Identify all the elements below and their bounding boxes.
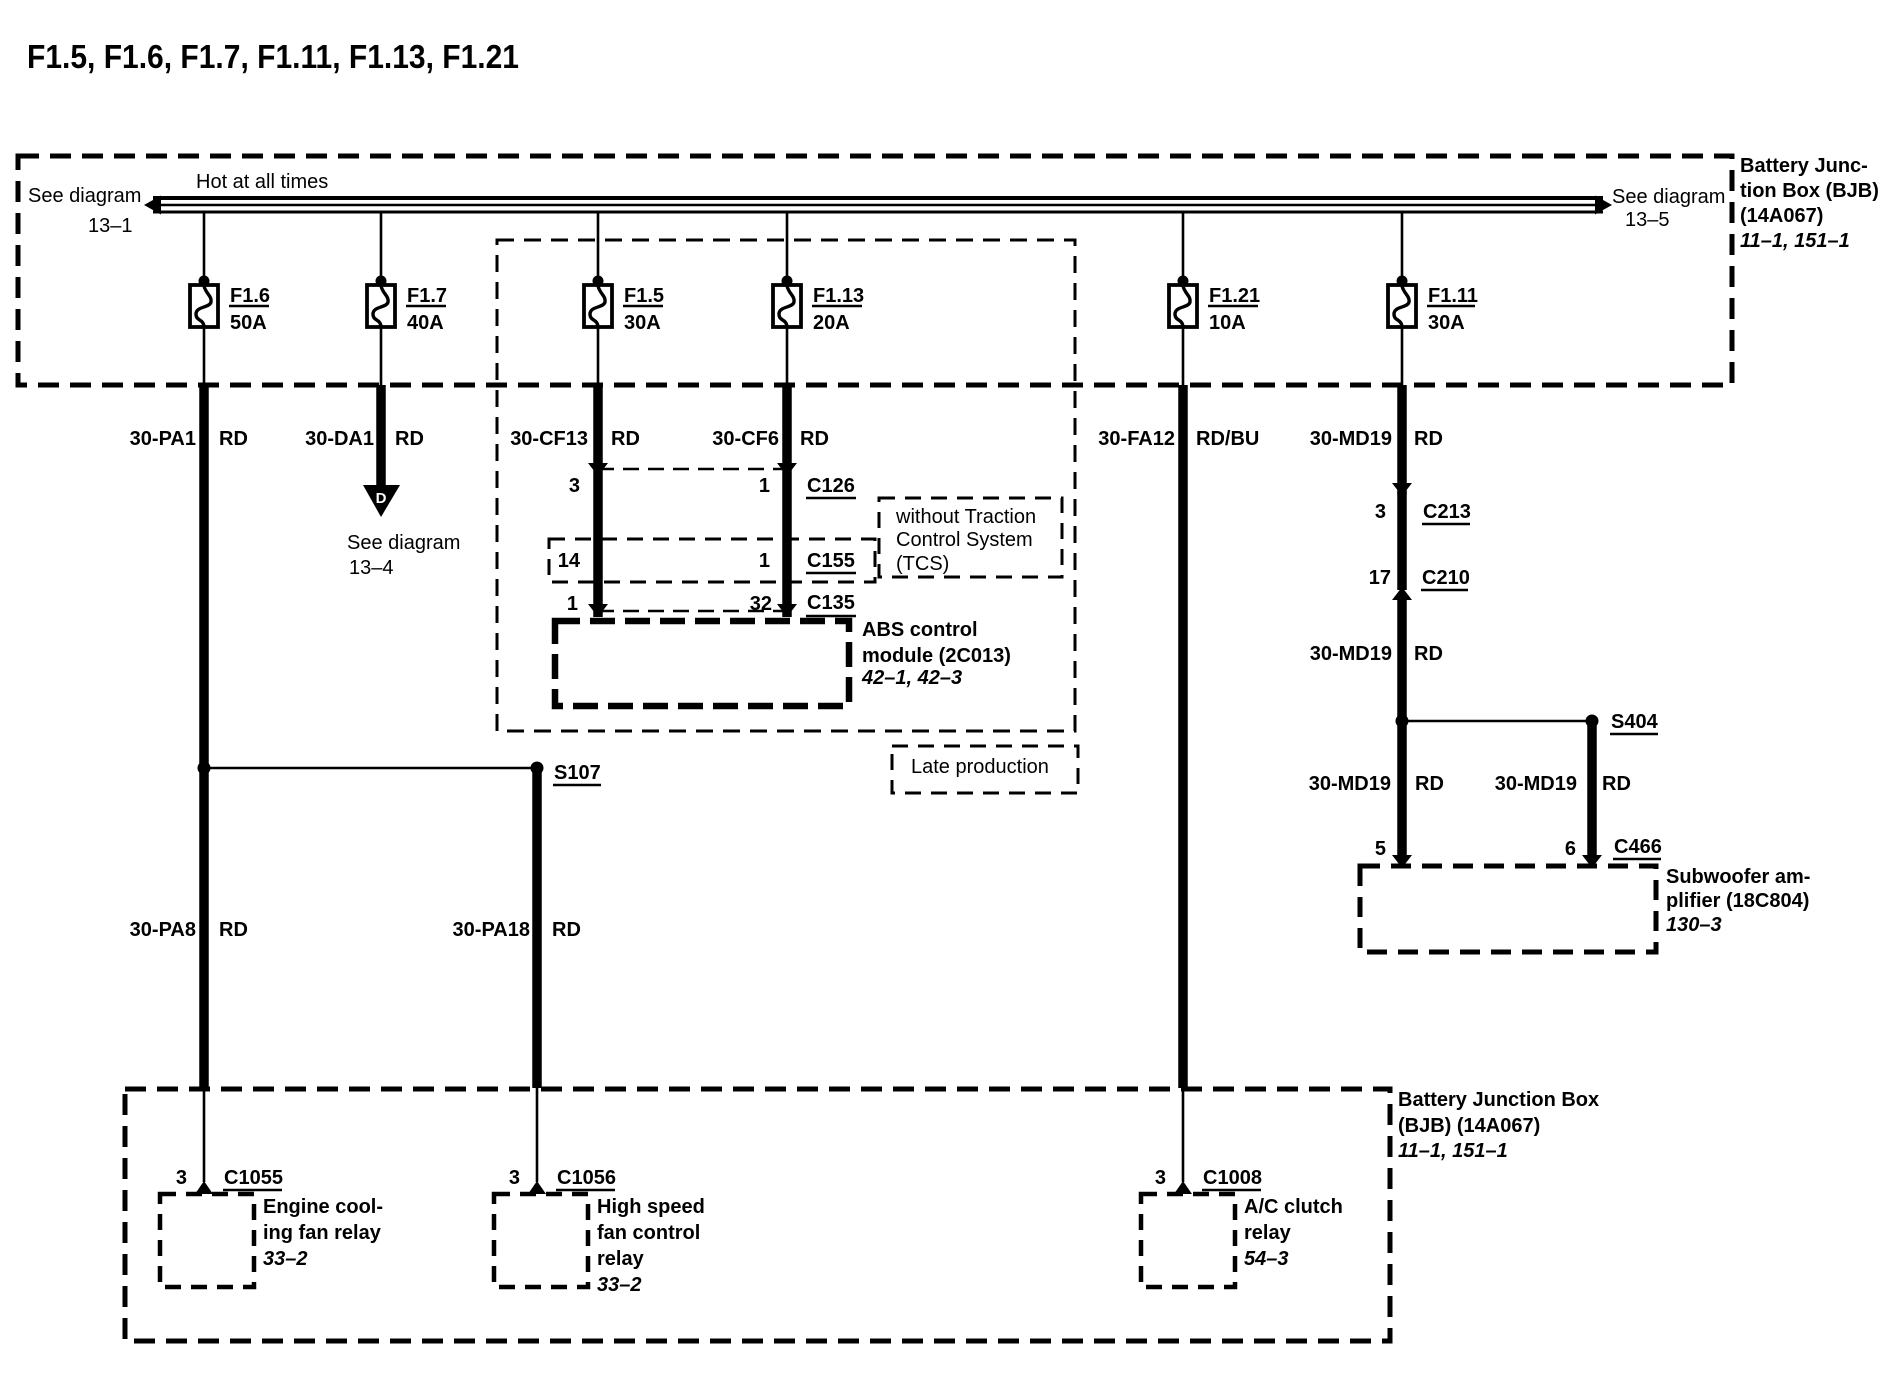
wire 30-CF6 (bold) to ABS module	[782, 385, 792, 617]
svg-text:50A: 50A	[230, 312, 267, 334]
wire (thin) into C1056	[536, 1088, 539, 1182]
svg-text:11–1, 151–1: 11–1, 151–1	[1740, 230, 1850, 252]
svg-text:30-MD19: 30-MD19	[1310, 643, 1392, 665]
label 30-MD19 RD (middle)	[1310, 643, 1443, 665]
wire (thin) into C1055	[203, 1088, 206, 1182]
note: See diagram 13-5 (right)	[1612, 186, 1725, 231]
svg-text:32: 32	[750, 593, 772, 615]
svg-text:Late production: Late production	[911, 756, 1049, 778]
svg-text:30A: 30A	[624, 312, 661, 334]
svg-text:C155: C155	[807, 550, 855, 572]
svg-text:3: 3	[176, 1167, 187, 1189]
svg-text:Subwoofer am-: Subwoofer am-	[1666, 866, 1810, 888]
svg-text:RD: RD	[1414, 428, 1443, 450]
note box: without Traction Control System (TCS)	[879, 498, 1062, 577]
svg-text:1: 1	[567, 593, 578, 615]
fuse F1.21 10A	[1169, 276, 1260, 386]
wire 30-PA8 (bold) from S107 to bottom BJB	[199, 768, 209, 1088]
svg-text:30-MD19: 30-MD19	[1309, 773, 1391, 795]
svg-text:C1055: C1055	[224, 1167, 283, 1189]
svg-text:High speed: High speed	[597, 1196, 705, 1218]
svg-text:1: 1	[759, 550, 770, 572]
note box: Late production	[892, 746, 1078, 793]
svg-text:C126: C126	[807, 475, 855, 497]
svg-text:C135: C135	[807, 592, 855, 614]
svg-text:1: 1	[759, 475, 770, 497]
wire (bold) C213 to C210	[1397, 492, 1407, 590]
label 30-PA18 RD	[453, 919, 581, 941]
svg-text:relay: relay	[1244, 1222, 1292, 1244]
svg-text:F1.11: F1.11	[1428, 285, 1478, 307]
svg-text:30-DA1: 30-DA1	[305, 428, 374, 450]
label 30-CF13 RD	[510, 428, 640, 450]
svg-text:C1056: C1056	[557, 1167, 616, 1189]
svg-text:40A: 40A	[407, 312, 444, 334]
wire 30-MD19 (bold) C210 to S404	[1397, 598, 1407, 721]
wire tap from bus to fuse F1.7	[380, 212, 383, 278]
svg-text:relay: relay	[597, 1248, 645, 1270]
svg-text:Battery Junction Box: Battery Junction Box	[1398, 1089, 1599, 1111]
Subwoofer amplifier label	[1666, 866, 1810, 936]
svg-text:RD: RD	[219, 428, 248, 450]
svg-text:A/C clutch: A/C clutch	[1244, 1196, 1343, 1218]
fuse F1.13 20A	[773, 276, 864, 386]
svg-text:C1008: C1008	[1203, 1167, 1262, 1189]
svg-text:30A: 30A	[1428, 312, 1465, 334]
svg-text:3: 3	[569, 475, 580, 497]
fuse F1.6 50A	[190, 276, 270, 386]
svg-text:See diagram: See diagram	[1612, 186, 1725, 208]
wire tap from bus to fuse F1.11	[1401, 212, 1404, 278]
svg-text:RD: RD	[552, 919, 581, 941]
relay label at C1056	[597, 1196, 705, 1296]
svg-text:ABS control: ABS control	[862, 619, 978, 641]
svg-text:Hot at all times: Hot at all times	[196, 171, 328, 193]
svg-text:without Traction: without Traction	[895, 506, 1036, 528]
fuse F1.5 30A	[584, 276, 664, 386]
BJB top label	[1740, 155, 1879, 252]
svg-text:30-PA18: 30-PA18	[453, 919, 530, 941]
svg-text:33–2: 33–2	[263, 1248, 308, 1270]
svg-text:RD: RD	[1602, 773, 1631, 795]
svg-text:5: 5	[1375, 838, 1386, 860]
connector C466	[1375, 836, 1662, 868]
svg-text:33–2: 33–2	[597, 1274, 642, 1296]
svg-text:30-PA1: 30-PA1	[130, 428, 196, 450]
wire 30-PA1 (bold) from BJB to S107	[199, 385, 209, 768]
relay box at C1055	[160, 1194, 254, 1287]
label 30-MD19 RD (lower right)	[1495, 773, 1631, 795]
ABS control module (2C013) box	[555, 621, 849, 706]
svg-text:(BJB) (14A067): (BJB) (14A067)	[1398, 1115, 1540, 1137]
svg-text:Control System: Control System	[896, 529, 1033, 551]
splice S404	[1396, 711, 1659, 734]
svg-text:10A: 10A	[1209, 312, 1246, 334]
label 30-DA1 RD	[305, 428, 424, 450]
svg-text:F1.7: F1.7	[407, 285, 447, 307]
svg-text:C213: C213	[1423, 501, 1471, 523]
power bus wire (hot at all times)	[144, 196, 1612, 215]
svg-text:F1.13: F1.13	[813, 285, 864, 307]
connector C210	[1369, 567, 1470, 600]
svg-text:RD: RD	[800, 428, 829, 450]
svg-text:20A: 20A	[813, 312, 850, 334]
svg-text:tion Box (BJB): tion Box (BJB)	[1740, 180, 1879, 202]
wire 30-DA1 (bold) with down arrow	[363, 385, 400, 517]
note: Hot at all times	[196, 171, 328, 193]
svg-text:11–1, 151–1: 11–1, 151–1	[1398, 1140, 1508, 1162]
relay label at C1055	[263, 1196, 383, 1270]
svg-text:14: 14	[558, 550, 581, 572]
wire 30-PA18 (bold) from S107 to bottom BJB	[532, 768, 542, 1088]
svg-text:Engine cool-: Engine cool-	[263, 1196, 383, 1218]
svg-text:(TCS): (TCS)	[896, 553, 949, 575]
wire 30-CF13 (bold) to ABS module	[593, 385, 603, 617]
note: See diagram 13-1 (left)	[28, 185, 141, 237]
svg-text:130–3: 130–3	[1666, 914, 1722, 936]
svg-text:See diagram: See diagram	[347, 532, 460, 554]
label 30-MD19 RD (top)	[1310, 428, 1443, 450]
svg-text:6: 6	[1565, 838, 1576, 860]
connector C155 (dashed box)	[549, 539, 875, 582]
note: See diagram 13-4	[347, 532, 460, 579]
connector C1055	[176, 1167, 283, 1194]
svg-text:3: 3	[1375, 501, 1386, 523]
svg-text:C466: C466	[1614, 836, 1662, 858]
connector C1008	[1155, 1167, 1262, 1194]
svg-text:(14A067): (14A067)	[1740, 205, 1823, 227]
wire (thin) into C1008	[1182, 1088, 1185, 1182]
wire 30-MD19 (bold) from BJB to C213	[1397, 385, 1407, 494]
svg-text:30-CF13: 30-CF13	[510, 428, 588, 450]
svg-text:30-FA12: 30-FA12	[1098, 428, 1175, 450]
label 30-MD19 RD (lower left)	[1309, 773, 1444, 795]
svg-text:13–4: 13–4	[349, 557, 394, 579]
inner dashed region box (ABS circuits)	[497, 240, 1075, 731]
relay label at C1008	[1244, 1196, 1343, 1270]
label 30-PA8 RD	[130, 919, 248, 941]
svg-text:See diagram: See diagram	[28, 185, 141, 207]
label 30-CF6 RD	[712, 428, 829, 450]
svg-text:RD: RD	[611, 428, 640, 450]
svg-text:RD: RD	[395, 428, 424, 450]
svg-text:30-MD19: 30-MD19	[1310, 428, 1392, 450]
BJB bottom label	[1398, 1089, 1599, 1162]
Subwoofer amplifier (18C804) box	[1360, 866, 1656, 952]
svg-text:RD: RD	[1414, 643, 1443, 665]
wire tap from bus to fuse F1.21	[1182, 212, 1185, 278]
label 30-FA12 RD/BU	[1098, 428, 1259, 450]
fuse F1.11 30A	[1388, 276, 1478, 386]
svg-text:fan control: fan control	[597, 1222, 700, 1244]
Battery Junction Box bottom dashed box	[125, 1089, 1390, 1341]
svg-text:RD: RD	[219, 919, 248, 941]
svg-text:17: 17	[1369, 567, 1391, 589]
connector C1056	[509, 1167, 616, 1194]
ABS control module label	[861, 619, 1011, 689]
svg-text:F1.5: F1.5	[624, 285, 664, 307]
connector C213	[1375, 483, 1471, 524]
svg-text:plifier (18C804): plifier (18C804)	[1666, 890, 1809, 912]
svg-text:S404: S404	[1611, 711, 1659, 733]
label 30-PA1 RD	[130, 428, 248, 450]
splice S107	[198, 762, 602, 786]
svg-text:3: 3	[1155, 1167, 1166, 1189]
title	[27, 38, 519, 75]
svg-text:C210: C210	[1422, 567, 1470, 589]
svg-text:13–1: 13–1	[88, 215, 133, 237]
svg-text:F1.5, F1.6, F1.7, F1.11, F1.13: F1.5, F1.6, F1.7, F1.11, F1.13, F1.21	[27, 38, 519, 75]
svg-text:30-CF6: 30-CF6	[712, 428, 779, 450]
svg-text:ing fan relay: ing fan relay	[263, 1222, 382, 1244]
connector C126	[569, 463, 856, 498]
wire 30-MD19 (bold) S404 branch to C466 pin 6	[1587, 721, 1597, 856]
svg-text:30-MD19: 30-MD19	[1495, 773, 1577, 795]
svg-text:F1.21: F1.21	[1209, 285, 1260, 307]
svg-text:module (2C013): module (2C013)	[862, 645, 1011, 667]
wire tap from bus to fuse F1.13	[786, 212, 789, 278]
svg-text:Battery Junc-: Battery Junc-	[1740, 155, 1868, 177]
wire 30-MD19 (bold) S404 to C466 pin 5	[1397, 721, 1407, 856]
fuse F1.7 40A	[367, 276, 447, 386]
svg-text:30-PA8: 30-PA8	[130, 919, 196, 941]
relay box at C1008	[1141, 1194, 1235, 1287]
wire tap from bus to fuse F1.6	[203, 212, 206, 278]
svg-text:54–3: 54–3	[1244, 1248, 1289, 1270]
connector C135	[567, 592, 856, 617]
svg-text:RD/BU: RD/BU	[1196, 428, 1259, 450]
svg-text:S107: S107	[554, 762, 601, 784]
wire tap from bus to fuse F1.5	[597, 212, 600, 278]
wire 30-FA12 (bold) to bottom BJB	[1178, 385, 1188, 1088]
svg-text:13–5: 13–5	[1625, 209, 1670, 231]
svg-text:D: D	[376, 490, 387, 507]
svg-text:F1.6: F1.6	[230, 285, 270, 307]
svg-text:RD: RD	[1415, 773, 1444, 795]
svg-text:3: 3	[509, 1167, 520, 1189]
svg-text:42–1, 42–3: 42–1, 42–3	[861, 667, 962, 689]
Battery Junction Box (BJB) top dashed box	[18, 156, 1732, 385]
relay box at C1056	[494, 1194, 588, 1287]
